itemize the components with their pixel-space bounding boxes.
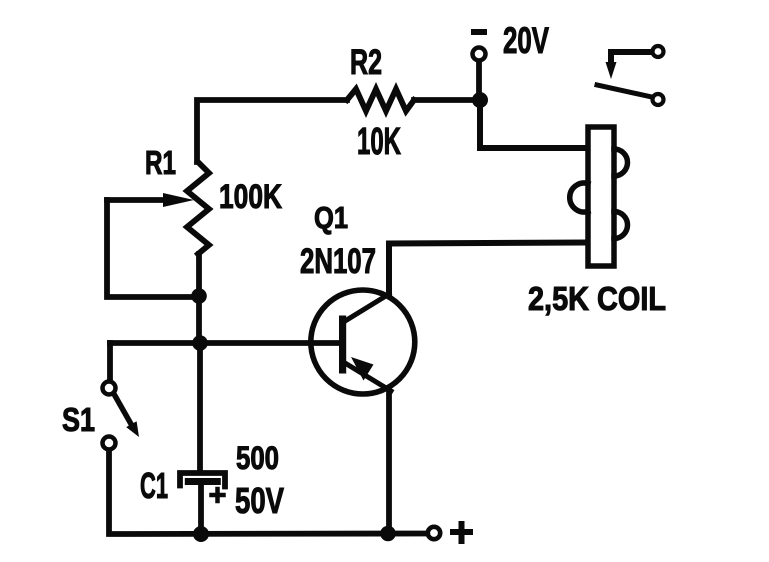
svg-text:2N107: 2N107 bbox=[300, 242, 376, 281]
svg-text:500: 500 bbox=[236, 440, 279, 476]
wire R1 to base junction bbox=[196, 254, 202, 343]
label 2.5K COIL bbox=[528, 280, 666, 317]
svg-text:100K: 100K bbox=[219, 178, 282, 216]
label S1 bbox=[62, 401, 95, 438]
label 20V bbox=[503, 20, 549, 61]
svg-text:50V: 50V bbox=[235, 480, 284, 521]
wire S1 to bottom rail bbox=[109, 451, 426, 534]
label 2N107 bbox=[300, 242, 376, 281]
wire R1 feedback loop bbox=[107, 200, 196, 297]
svg-text:10K: 10K bbox=[357, 121, 401, 163]
svg-text:2,5K COIL: 2,5K COIL bbox=[528, 280, 666, 317]
relay armature arrow bbox=[606, 62, 617, 79]
value 10K bbox=[357, 121, 401, 163]
relay contact bottom terminal bbox=[653, 94, 664, 105]
node supply junction bbox=[472, 92, 488, 108]
label Q1 bbox=[314, 200, 348, 235]
relay contact top terminal bbox=[653, 46, 664, 57]
polarity + of C1 bbox=[212, 489, 224, 501]
svg-text:Q1: Q1 bbox=[314, 200, 348, 235]
relay coil 2.5K bbox=[570, 127, 628, 266]
node base junction bbox=[192, 335, 208, 351]
wire S1 branch bbox=[107, 343, 113, 379]
wire base bbox=[110, 340, 341, 346]
value 500 bbox=[236, 440, 279, 476]
node emitter junction bbox=[380, 526, 396, 542]
svg-text:R1: R1 bbox=[145, 144, 176, 181]
wire base junction to C1 bbox=[197, 343, 203, 470]
svg-text:20V: 20V bbox=[503, 20, 549, 61]
transistor Q1 bbox=[311, 290, 415, 394]
terminal -20V bbox=[471, 29, 487, 96]
node R1 bottom junction bbox=[191, 288, 207, 304]
capacitor C1 bbox=[180, 473, 225, 530]
wire R2 to supply junction bbox=[414, 97, 478, 103]
switch S1 bbox=[103, 382, 140, 450]
wire coil to collector bbox=[389, 243, 586, 295]
R1 wiper arrow bbox=[107, 193, 194, 207]
relay movable blade bbox=[597, 85, 652, 97]
polarity + of output terminal bbox=[453, 524, 470, 541]
wire emitter to bottom rail bbox=[386, 391, 392, 534]
label R2 bbox=[350, 43, 382, 82]
svg-text:S1: S1 bbox=[62, 401, 95, 438]
label C1 bbox=[140, 465, 168, 506]
potentiometer R1 bbox=[187, 162, 209, 254]
svg-text:R2: R2 bbox=[350, 43, 382, 82]
resistor R2 bbox=[347, 89, 414, 111]
node C1 bottom junction bbox=[193, 526, 209, 542]
value 100K bbox=[219, 178, 282, 216]
wire top-left corner bbox=[197, 100, 347, 162]
svg-text:C1: C1 bbox=[140, 465, 168, 506]
wire junction to coil top bbox=[480, 104, 586, 148]
value 50V bbox=[235, 480, 284, 521]
terminal + output bbox=[428, 527, 440, 539]
wire relay contact arm bbox=[611, 52, 650, 62]
label R1 bbox=[145, 144, 176, 181]
